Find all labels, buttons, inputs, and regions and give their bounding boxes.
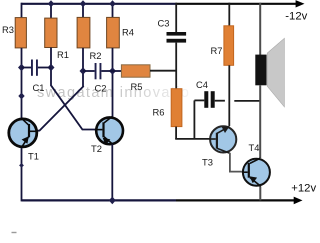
wire: R1 bottom lead to C1 and cross-couple start <box>50 48 52 87</box>
C4 label <box>196 79 208 90</box>
wire: C3 top lead from rail <box>175 3 177 32</box>
wire: top supply rail (right black portion) <box>176 3 297 5</box>
svg-text:C2: C2 <box>95 83 107 94</box>
transistor T2 <box>95 117 123 146</box>
wire: R2 bottom lead to C2 and cross-couple start <box>82 48 84 87</box>
wire: bottom supply rail (right black portion) <box>176 199 295 201</box>
R6 label <box>153 107 165 118</box>
T2 label <box>91 143 102 154</box>
resistor R2 <box>77 17 90 48</box>
node: junction T2 emitter / bottom rail <box>109 197 116 205</box>
transistor T1 <box>9 118 38 147</box>
wire: R7 bottom lead down to T3 collector <box>228 65 230 126</box>
svg-text:R2: R2 <box>90 50 102 61</box>
capacitor C4 <box>194 91 225 108</box>
resistor R5 <box>121 65 150 77</box>
svg-text:T4: T4 <box>249 142 260 153</box>
wire: cross-couple diagonal C2 node to T1 base <box>38 86 84 131</box>
wire: R2 top lead <box>82 3 84 18</box>
wire: T3 emitter to T4 base (gray) <box>230 153 242 172</box>
-12v supply arrow <box>296 0 305 7</box>
wire: link from T3 collector region to speaker line <box>234 100 260 102</box>
wire: top supply rail (left navy portion) <box>22 3 177 5</box>
wire: R3 top lead <box>21 3 23 18</box>
-12v label <box>285 11 307 23</box>
C3 label <box>158 18 170 29</box>
svg-text:T1: T1 <box>28 151 39 162</box>
node: junction R4/C2 <box>109 67 116 75</box>
node: rail junction R1 <box>48 0 54 7</box>
+12v label <box>291 182 316 194</box>
node: dot on T1 collector wire <box>18 93 24 100</box>
T3 label <box>202 157 213 168</box>
watermark dash bottom left <box>12 232 17 233</box>
speaker coil <box>255 55 266 86</box>
wire: R3 bottom lead down to T1 collector <box>21 48 23 118</box>
R1 label <box>57 49 69 60</box>
node: junction R3/C1 <box>18 64 25 72</box>
R2 label <box>90 50 102 61</box>
wire: cross-couple diagonal C1 node to T2 base <box>51 86 95 130</box>
wire: R7 top lead from rail <box>228 3 230 26</box>
svg-text:+12v: +12v <box>291 182 316 194</box>
wire: T2 emitter lead to bottom rail <box>111 144 113 201</box>
svg-text:R7: R7 <box>211 45 223 56</box>
svg-text:C3: C3 <box>158 18 170 29</box>
wire: R5 right lead to C3/R6 line <box>150 70 176 72</box>
svg-text:C1: C1 <box>33 82 45 93</box>
svg-text:R3: R3 <box>2 24 14 35</box>
capacitor C1 <box>22 60 52 76</box>
capacitor C3 <box>167 32 187 43</box>
wire: C3 bottom lead down to R6 <box>175 43 177 89</box>
wire: speaker top lead from rail (gray) <box>259 3 261 55</box>
T4 label <box>249 142 260 153</box>
transistor T3 <box>209 126 236 153</box>
node: junction R1/C1 <box>48 64 55 72</box>
R3 label <box>2 24 14 35</box>
C1 label <box>33 82 45 93</box>
resistor R1 <box>45 18 57 47</box>
wire: R4 top lead <box>112 3 114 18</box>
svg-text:-12v: -12v <box>285 11 307 23</box>
node: rail junction R4 <box>109 0 115 7</box>
capacitor C2 <box>83 63 113 79</box>
svg-text:T2: T2 <box>91 143 102 154</box>
watermark swagatam innovations <box>37 85 190 101</box>
+12v supply arrow <box>294 197 303 205</box>
R5 label <box>131 81 143 92</box>
T1 label <box>28 151 39 162</box>
node: rail junction R2 <box>80 0 86 7</box>
wire: R4 bottom lead down to T2 collector <box>112 48 114 117</box>
wire: C4 left lead vertical <box>193 100 195 138</box>
C2 label <box>95 83 107 94</box>
svg-text:R5: R5 <box>131 81 143 92</box>
wire: R5 left lead <box>113 70 122 72</box>
R7 label <box>211 45 223 56</box>
R4 label <box>122 27 134 38</box>
node: junction R2/C2 <box>80 67 87 75</box>
svg-text:R6: R6 <box>153 107 165 118</box>
resistor R6 <box>171 89 182 127</box>
resistor R3 <box>15 18 26 48</box>
svg-text:R1: R1 <box>57 49 69 60</box>
wire: R6 bottom lead <box>175 127 177 139</box>
wire: T1 emitter lead to bottom rail <box>21 148 23 201</box>
wire: T3 base wire <box>175 138 209 140</box>
wire: speaker bottom lead down to T4 collector (gray) <box>259 85 261 158</box>
wire: bottom supply rail (left navy portion) <box>22 199 177 201</box>
transistor T4 <box>242 158 270 186</box>
wire: R1 top lead <box>50 3 52 18</box>
speaker cone <box>267 38 284 107</box>
wire: T4 emitter lead to bottom rail (gray) <box>259 187 261 201</box>
resistor R4 <box>107 17 120 48</box>
svg-text:R4: R4 <box>122 27 134 38</box>
svg-text:T3: T3 <box>202 157 213 168</box>
resistor R7 <box>224 26 234 66</box>
svg-text:C4: C4 <box>196 79 208 90</box>
node: small dot on T1 emitter wire <box>19 163 24 168</box>
